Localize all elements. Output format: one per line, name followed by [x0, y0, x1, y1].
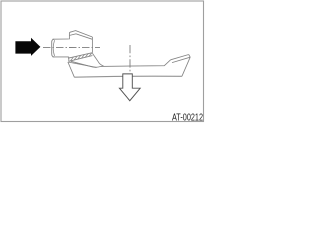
- knurl hatch 3: [78, 55, 81, 59]
- fitting hex top step: [68, 32, 70, 39]
- vertical centerline at bar middle: [129, 45, 131, 74]
- knurl hatch 4: [82, 54, 85, 58]
- fitting hex bottom step: [68, 57, 70, 61]
- fitting hex bottom facet bottom edge: [69, 56, 93, 62]
- horizontal centerline of fitting: [43, 46, 100, 48]
- fitting tube inner lip arc: [53, 40, 54, 56]
- bar right tab top line: [171, 55, 189, 60]
- hollow down arrow: [119, 74, 140, 101]
- bar right end face: [182, 57, 190, 76]
- knurl hatch 2: [74, 56, 77, 60]
- junction stub from fitting to bar top edge: [92, 53, 103, 66]
- fitting hex top facet upper line: [70, 31, 92, 37]
- figure border frame: [1, 1, 204, 122]
- bar left end face: [68, 62, 75, 77]
- bar right tab end edge: [189, 55, 191, 58]
- fitting hex top facet lower line: [70, 34, 93, 40]
- fitting right face: [91, 37, 93, 53]
- svg-text:AT-00212: AT-00212: [172, 113, 203, 124]
- fitting cylinder bottom edge: [53, 56, 69, 58]
- knurl hatch 6: [89, 53, 92, 57]
- knurl hatch 5: [85, 54, 88, 58]
- bar inner diagonal (left bend): [68, 62, 97, 67]
- fitting tube end cap (left rounded edge): [52, 39, 55, 57]
- knurl hatch 1: [71, 57, 74, 61]
- fitting hex bottom facet top edge: [68, 53, 92, 59]
- black direction arrow (points right at fitting): [15, 38, 40, 56]
- bar top edge: [71, 60, 171, 67]
- fitting cylinder top edge: [53, 38, 69, 40]
- bar bottom edge: [74, 75, 181, 78]
- bar right tab bottom line: [172, 57, 190, 62]
